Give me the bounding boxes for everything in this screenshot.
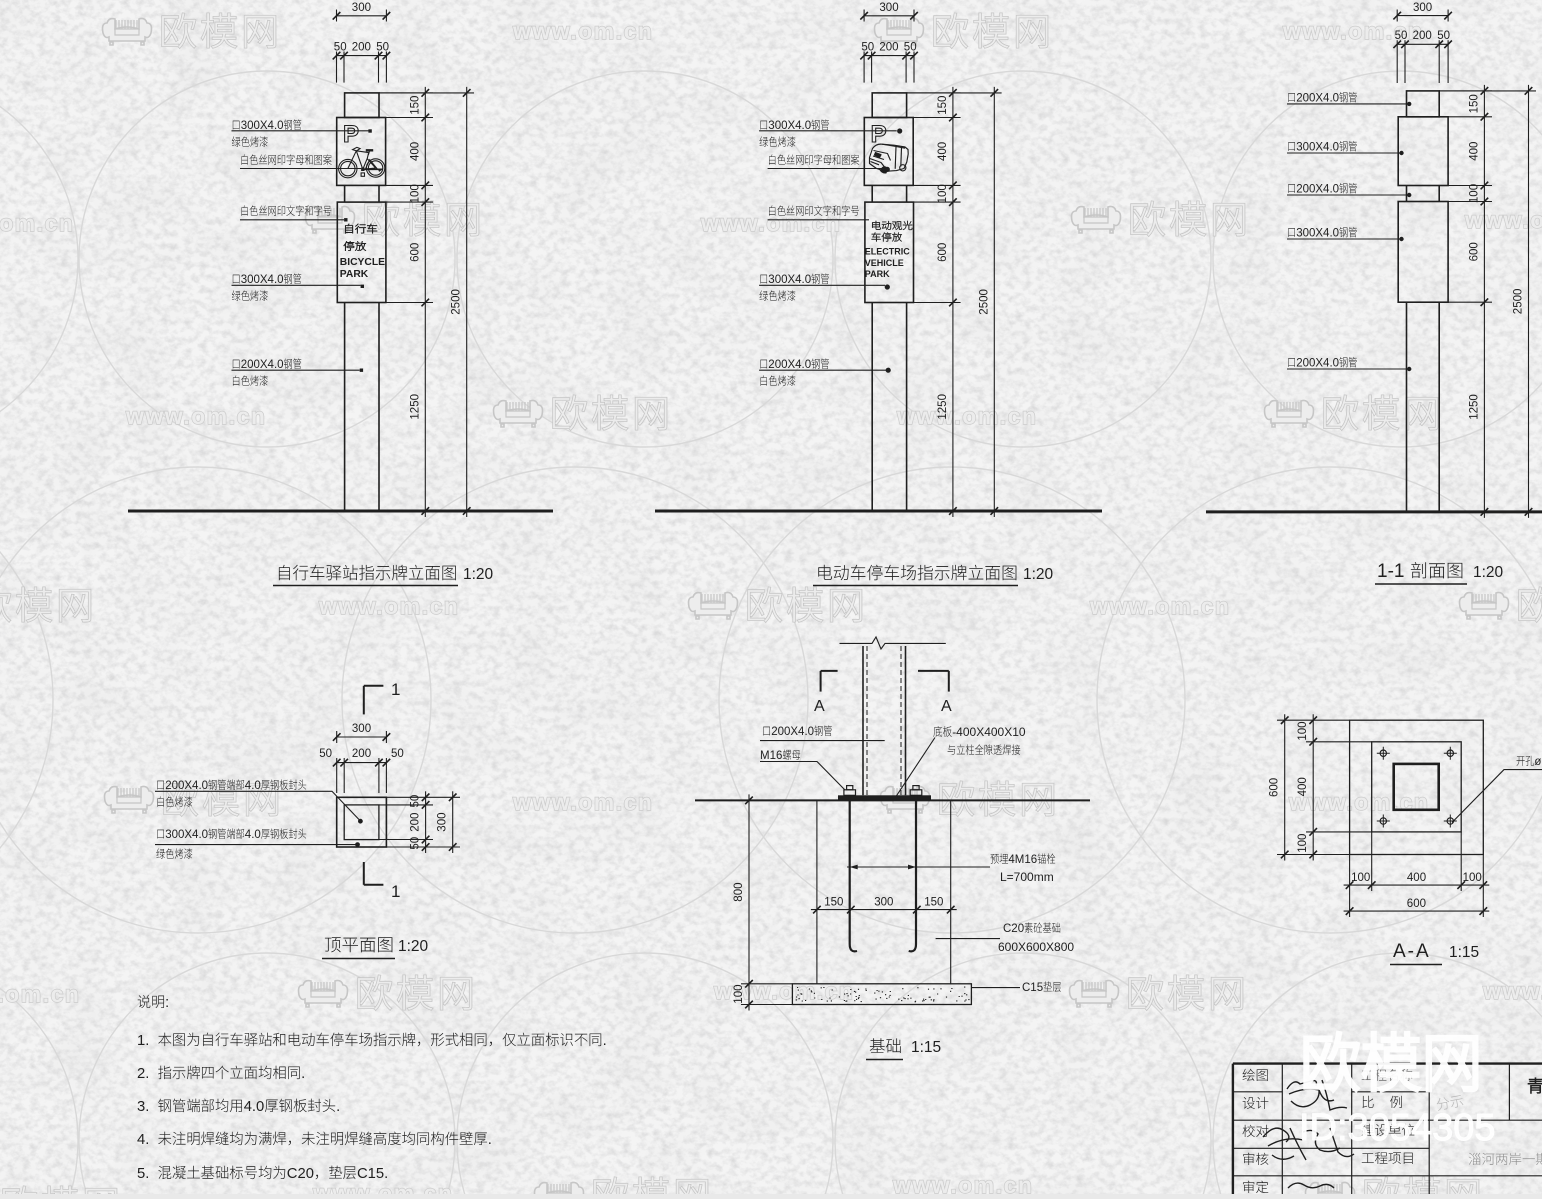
svg-text:PARK: PARK <box>340 269 369 280</box>
svg-text:A: A <box>814 698 825 715</box>
svg-text:600: 600 <box>937 243 949 262</box>
svg-text:1:20: 1:20 <box>463 566 494 583</box>
svg-text:150: 150 <box>824 897 843 909</box>
section 1-1: pole between <box>1406 186 1408 202</box>
section 1-1: labels <box>1288 92 1357 105</box>
A-A: outer square 600 <box>1350 720 1484 854</box>
svg-text:BICYCLE: BICYCLE <box>340 257 385 268</box>
elevation car: title <box>818 565 1016 581</box>
foundation: label C15 <box>1022 981 1061 994</box>
svg-text:1250: 1250 <box>937 394 949 420</box>
elevation car: label 200X4.0 pole <box>760 358 829 371</box>
foundation: section marker A right <box>918 670 949 672</box>
svg-text:150: 150 <box>937 96 949 115</box>
plan: section marker 1 top <box>364 685 384 687</box>
section 1-1: dim chain <box>1483 85 1485 518</box>
A-A: bottom dims <box>1349 855 1351 918</box>
svg-text:100: 100 <box>409 184 421 203</box>
title block: signature 3 <box>1288 1183 1334 1188</box>
svg-text:www.om.cn: www.om.cn <box>512 789 653 815</box>
elevation car: label white silkscreen text <box>769 205 859 216</box>
svg-text:200X4.0: 200X4.0 <box>771 726 814 738</box>
svg-text:400: 400 <box>1468 142 1480 161</box>
A-A: open hole label <box>1517 756 1542 768</box>
svg-text:4.: 4. <box>137 1132 158 1148</box>
foundation: label 200X4.0 tube <box>763 725 832 738</box>
svg-text:.: . <box>336 1099 340 1115</box>
title block: outer border <box>1233 1062 1542 1064</box>
svg-text:300X4.0: 300X4.0 <box>241 274 284 286</box>
foundation: section marker A left <box>821 670 838 672</box>
elevation bike: pole below <box>344 303 346 511</box>
svg-text:www.om.cn: www.om.cn <box>1464 207 1542 233</box>
svg-text:P: P <box>343 121 359 148</box>
svg-text:50: 50 <box>410 837 422 850</box>
elevation bike: dim chain 150/400/100/600/1250 <box>424 87 426 517</box>
A-A: bolt holes <box>1380 750 1386 756</box>
foundation: left dim 800/100 <box>741 799 817 801</box>
elevation car: overall dim 2500 <box>993 87 995 517</box>
elevation bike: label white silkscreen letters <box>241 154 331 165</box>
svg-text:600: 600 <box>1407 898 1426 910</box>
svg-text:200X4.0: 200X4.0 <box>241 359 284 371</box>
svg-text:2500: 2500 <box>451 289 463 315</box>
svg-text:100: 100 <box>1463 872 1482 884</box>
svg-text:ELECTRIC: ELECTRIC <box>865 247 911 257</box>
svg-text:300: 300 <box>1413 2 1432 14</box>
svg-text:300: 300 <box>352 723 371 735</box>
svg-text:200: 200 <box>1413 30 1432 42</box>
elevation bike: text sign box <box>337 202 386 302</box>
svg-text:A-A: A-A <box>1393 941 1431 962</box>
svg-text:1:15: 1:15 <box>1449 944 1479 961</box>
svg-text:100: 100 <box>1468 184 1480 203</box>
svg-text:200: 200 <box>352 748 371 760</box>
svg-text:C20: C20 <box>1003 923 1024 935</box>
foundation: dim 150 300 150 <box>811 909 957 911</box>
foundation: footing with stipple <box>792 984 971 1005</box>
foundation: base plate <box>838 795 931 800</box>
elevation bike: label 200X4.0 pole <box>233 358 302 371</box>
svg-text:300X4.0: 300X4.0 <box>1296 142 1339 154</box>
svg-text:3.: 3. <box>137 1099 158 1115</box>
big white watermark over title block <box>1305 1033 1477 1091</box>
svg-text:C20: C20 <box>287 1166 314 1182</box>
foundation: title <box>870 1038 901 1053</box>
svg-text:-400X400X10: -400X400X10 <box>952 725 1026 739</box>
svg-text:100: 100 <box>1351 872 1370 884</box>
foundation: break line <box>840 637 946 649</box>
elevation car: text sign box <box>865 202 914 302</box>
section 1-1: ground line <box>1206 510 1542 513</box>
svg-text:1:20: 1:20 <box>398 938 429 955</box>
svg-text:4.0: 4.0 <box>244 1099 265 1115</box>
svg-text:www.om.cn: www.om.cn <box>892 1172 1033 1194</box>
svg-text:100: 100 <box>733 985 745 1004</box>
svg-text:200X4.0: 200X4.0 <box>1296 358 1339 370</box>
svg-text:4M16: 4M16 <box>1008 854 1037 866</box>
foundation: pit walls <box>816 800 818 983</box>
svg-text:200X4.0: 200X4.0 <box>1296 93 1339 105</box>
elevation car: label white silkscreen letters <box>769 154 859 165</box>
plan: outer square 300 <box>337 797 387 847</box>
svg-text:.: . <box>603 1033 607 1049</box>
svg-text:200: 200 <box>410 813 422 832</box>
svg-text:100: 100 <box>937 184 949 203</box>
svg-text:150: 150 <box>924 897 943 909</box>
elevation car: dim extension lines <box>907 92 961 94</box>
svg-text:50: 50 <box>334 42 347 54</box>
svg-text:600: 600 <box>1468 242 1480 261</box>
svg-text:600: 600 <box>409 243 421 262</box>
svg-text:100: 100 <box>1297 721 1309 740</box>
svg-text:2500: 2500 <box>978 289 990 315</box>
elevation bike: title <box>279 565 456 581</box>
svg-text:PARK: PARK <box>865 269 890 279</box>
svg-text:300: 300 <box>352 2 371 14</box>
title block: project text <box>1528 1078 1542 1094</box>
section 1-1: pole cap <box>1407 91 1440 117</box>
elevation bike: label white silkscreen text <box>241 205 331 216</box>
title block: signature 2 <box>1263 1128 1354 1160</box>
svg-text:www.om.cn: www.om.cn <box>125 403 266 429</box>
plan: right dim 300 <box>452 791 454 853</box>
svg-text:300X4.0: 300X4.0 <box>768 120 811 132</box>
title block: row labels <box>1243 1069 1268 1081</box>
svg-text:1:20: 1:20 <box>1023 566 1054 583</box>
svg-text:150: 150 <box>1468 94 1480 113</box>
svg-text:300X4.0: 300X4.0 <box>241 120 284 132</box>
elevation bike: label 300X4.0 steel tube green <box>233 119 302 132</box>
svg-text:5.: 5. <box>137 1166 158 1182</box>
svg-text:200: 200 <box>352 42 371 54</box>
svg-text:600X600X800: 600X600X800 <box>998 940 1074 954</box>
foundation: ground line <box>695 799 1090 801</box>
title block: col3 labels <box>1362 1069 1413 1081</box>
elevation car: ground line <box>655 510 1102 513</box>
foundation: anchor bolt label <box>990 853 1055 866</box>
svg-text:400: 400 <box>937 142 949 161</box>
svg-text:A: A <box>941 698 952 715</box>
svg-text:300: 300 <box>874 897 893 909</box>
title block: grid lines <box>1281 1064 1283 1194</box>
svg-text:1: 1 <box>391 882 400 901</box>
section 1-1: lower 300 box <box>1398 202 1448 303</box>
foundation: pole <box>862 646 864 795</box>
foundation: label C20 <box>1003 922 1060 935</box>
svg-text:www.om.cn: www.om.cn <box>312 1180 453 1194</box>
A-A: middle square 400 <box>1372 742 1462 832</box>
svg-text:2.: 2. <box>137 1066 158 1082</box>
svg-text:1250: 1250 <box>1468 394 1480 420</box>
svg-text:400: 400 <box>409 142 421 161</box>
section 1-1: dim extensions <box>1439 90 1492 92</box>
elevation car: pole between signs <box>871 185 873 202</box>
elevation car: P sign box <box>864 118 913 186</box>
elevation bike: ground line <box>128 510 553 513</box>
svg-text::: : <box>165 995 169 1011</box>
watermark urls <box>512 18 653 44</box>
svg-text:400: 400 <box>1407 872 1426 884</box>
elevation car: pole below <box>871 303 873 511</box>
svg-text:1.: 1. <box>137 1033 158 1049</box>
elevation bike: P sign box <box>337 118 386 186</box>
svg-text:ø18: ø18 <box>1534 756 1542 768</box>
plan: leader white cap <box>157 779 306 792</box>
svg-text:www.om.cn: www.om.cn <box>318 593 459 619</box>
elevation car: sign text <box>872 221 912 230</box>
svg-text:VEHICLE: VEHICLE <box>865 258 904 268</box>
svg-text:4.0: 4.0 <box>245 829 261 841</box>
svg-text:4.0: 4.0 <box>245 780 261 792</box>
svg-text:300X4.0: 300X4.0 <box>1296 228 1339 240</box>
svg-text:M16: M16 <box>760 750 782 762</box>
foundation: label base plate <box>933 725 1026 739</box>
svg-text:50: 50 <box>391 748 404 760</box>
svg-text:600: 600 <box>1269 778 1281 797</box>
svg-text:www.om.cn: www.om.cn <box>896 403 1037 429</box>
svg-text:300: 300 <box>879 2 898 14</box>
svg-text:1250: 1250 <box>409 394 421 420</box>
svg-text:www.om.cn: www.om.cn <box>700 210 841 236</box>
svg-text:300X4.0: 300X4.0 <box>165 829 208 841</box>
svg-text:www.om.cn: www.om.cn <box>0 210 74 236</box>
svg-text:200X4.0: 200X4.0 <box>165 780 208 792</box>
svg-text:200: 200 <box>879 42 898 54</box>
svg-text:1:15: 1:15 <box>911 1039 941 1056</box>
foundation: label M16 nut <box>760 749 800 762</box>
svg-text:2500: 2500 <box>1513 289 1525 315</box>
svg-text:200X4.0: 200X4.0 <box>768 359 811 371</box>
plan: inner square 200 <box>344 805 379 840</box>
elevation bike: dim extension lines <box>379 92 433 94</box>
foundation: anchor nuts <box>844 790 856 796</box>
svg-text:.: . <box>301 1066 305 1082</box>
watermark arcs <box>0 71 78 447</box>
svg-text:50: 50 <box>410 795 422 808</box>
elevation bike: pole cap <box>345 93 379 118</box>
svg-text:800: 800 <box>733 883 745 902</box>
svg-text:www.om.cn: www.om.cn <box>1482 978 1542 1004</box>
title block: signature 1 <box>1287 1080 1347 1110</box>
svg-text:www.om.cn: www.om.cn <box>512 18 653 44</box>
svg-text:50: 50 <box>319 748 332 760</box>
svg-text:100: 100 <box>1297 834 1309 853</box>
svg-text:400: 400 <box>1297 777 1309 796</box>
svg-text:300: 300 <box>437 813 449 832</box>
svg-text:200X4.0: 200X4.0 <box>1296 184 1339 196</box>
plan: leader green cap <box>157 828 306 841</box>
elevation bike: label 300X4.0 lower <box>233 273 302 286</box>
svg-text:C15.: C15. <box>357 1166 388 1182</box>
svg-text:C15: C15 <box>1022 982 1043 994</box>
A-A: pole square 200 (thick) <box>1394 764 1439 810</box>
svg-text:www.om.cn: www.om.cn <box>1089 593 1230 619</box>
elevation car: electric cart icon <box>870 144 909 173</box>
section 1-1: upper 300 box <box>1398 117 1448 186</box>
section 1-1: pole below <box>1406 302 1408 511</box>
section 1-1: overall 2500 <box>1528 85 1530 518</box>
elevation bike: bicycle icon <box>339 147 385 178</box>
svg-text:.: . <box>488 1132 492 1148</box>
elevation car: label 300X4.0 lower <box>760 273 829 286</box>
watermark logos <box>103 13 276 48</box>
elevation car: label 300X4.0 steel tube green <box>760 119 829 132</box>
elevation car: pole cap <box>872 93 906 118</box>
elevation car: dim chain 150/400/100/600/1250 <box>952 87 954 517</box>
elevation bike: overall dim 2500 <box>466 87 468 517</box>
svg-text:1:20: 1:20 <box>1473 564 1504 581</box>
svg-text:www.om.cn: www.om.cn <box>0 981 80 1007</box>
svg-text:150: 150 <box>409 96 421 115</box>
elevation bike: sign text <box>345 224 377 234</box>
plan: right dim 50/200/50 <box>386 796 460 798</box>
A-A: left dims <box>1277 719 1350 721</box>
svg-text:ID:3054305: ID:3054305 <box>1299 1107 1496 1149</box>
svg-text:1-1: 1-1 <box>1377 561 1404 582</box>
svg-text:L=700mm: L=700mm <box>1000 870 1054 884</box>
foundation: anchor bolts with J hooks <box>850 795 916 951</box>
svg-text:300X4.0: 300X4.0 <box>768 274 811 286</box>
elevation bike: pole between signs <box>344 185 346 202</box>
plan: title <box>325 937 393 952</box>
svg-text:1: 1 <box>391 680 400 699</box>
plan: section marker 1 bottom <box>363 862 365 885</box>
